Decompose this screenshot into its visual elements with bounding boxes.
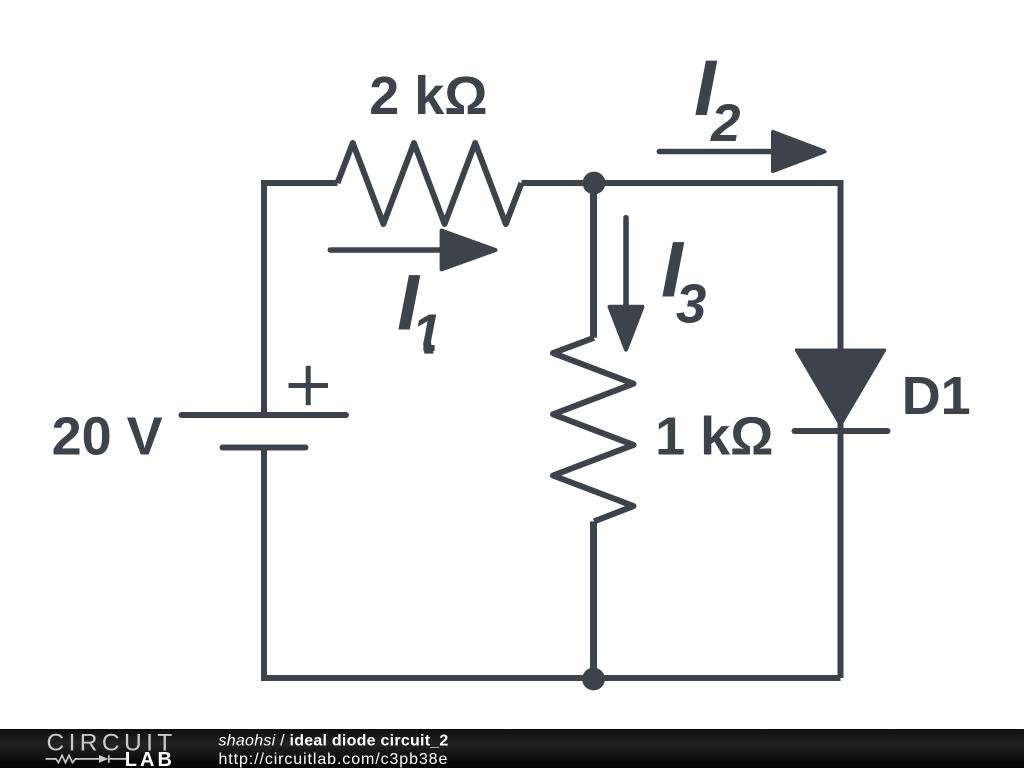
svg-text:D1: D1 (902, 366, 971, 426)
svg-text:3: 3 (676, 273, 706, 334)
svg-text:2: 2 (710, 94, 740, 153)
svg-text:1: 1 (412, 304, 441, 363)
svg-text:http://circuitlab.com/c3pb38e: http://circuitlab.com/c3pb38e (219, 751, 449, 768)
svg-text:LAB: LAB (125, 749, 175, 768)
svg-text:2 kΩ: 2 kΩ (369, 66, 487, 126)
svg-text:shaohsi / ideal diode circuit_: shaohsi / ideal diode circuit_2 (219, 732, 449, 749)
svg-text:20 V: 20 V (52, 407, 163, 467)
svg-text:1 kΩ: 1 kΩ (655, 407, 773, 467)
